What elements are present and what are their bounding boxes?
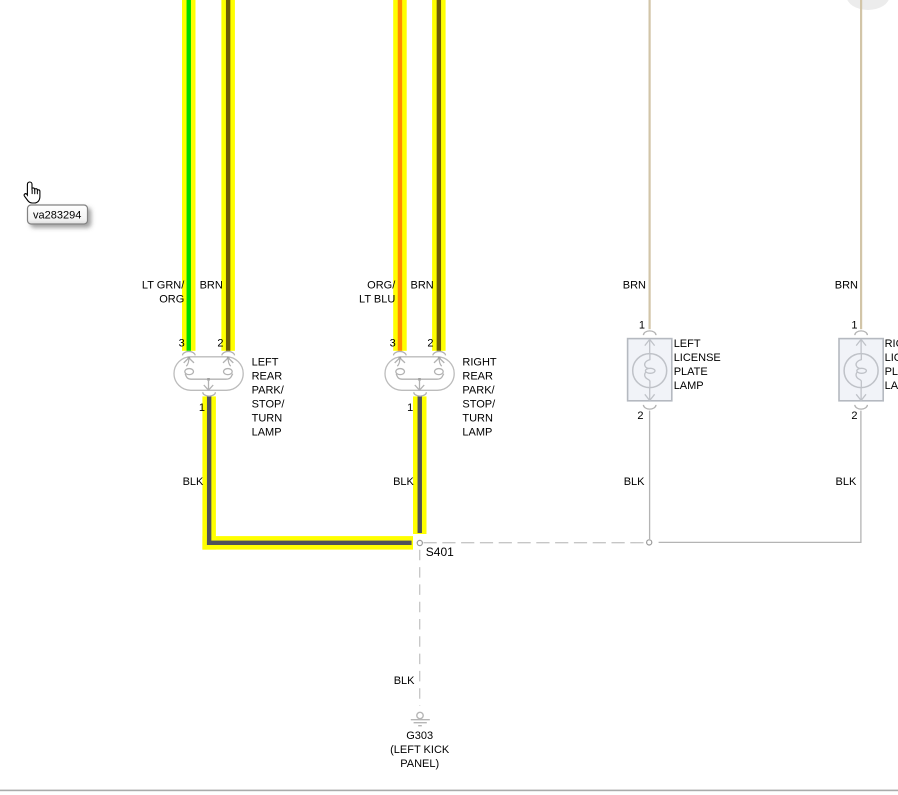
svg-text:LEFT: LEFT bbox=[674, 338, 701, 350]
wire BRN (left rear lamp) highlight bbox=[221, 0, 235, 351]
svg-text:S401: S401 bbox=[426, 545, 454, 559]
svg-text:STOP/: STOP/ bbox=[252, 398, 286, 410]
label LT GRN/ORG wire color bbox=[142, 279, 185, 305]
svg-text:2: 2 bbox=[637, 410, 643, 422]
label LEFT REAR PARK/STOP/TURN LAMP bbox=[252, 356, 286, 438]
pin 2 arrow bbox=[223, 358, 233, 363]
wire BRN (right rear lamp) core bbox=[437, 0, 441, 351]
filament left bbox=[397, 358, 400, 366]
pin 2 lead and arrow bbox=[645, 388, 655, 401]
svg-text:LICENSE: LICENSE bbox=[674, 352, 721, 364]
svg-text:2: 2 bbox=[217, 337, 223, 349]
svg-text:PARK/: PARK/ bbox=[462, 384, 495, 396]
stadium body bbox=[174, 357, 243, 391]
wire BRN thin (left license lamp) bbox=[649, 0, 651, 329]
svg-text:STOP/: STOP/ bbox=[462, 398, 496, 410]
label G303 (LEFT KICK PANEL) bbox=[390, 730, 450, 770]
bulb circle bbox=[633, 354, 667, 388]
inner bottom path bbox=[396, 374, 444, 380]
svg-text:3: 3 bbox=[390, 337, 396, 349]
svg-text:LT GRN/: LT GRN/ bbox=[142, 279, 185, 291]
svg-text:BLK: BLK bbox=[624, 476, 645, 488]
wire BLK (right rear lamp) highlight bbox=[413, 396, 427, 534]
pin 1 arrow and lead bbox=[856, 339, 866, 353]
pin 2 dot bbox=[227, 357, 230, 360]
tooltip va283294 bbox=[28, 205, 88, 224]
label LEFT LICENSE PLATE LAMP bbox=[674, 338, 721, 392]
svg-text:BRN: BRN bbox=[835, 279, 858, 291]
pin 3 arrow bbox=[395, 358, 405, 363]
filament bbox=[856, 354, 861, 369]
svg-text:ORG/: ORG/ bbox=[367, 279, 396, 291]
wire BLK (left rear lamp) core L-shape bbox=[207, 396, 211, 545]
pin 2 terminal arc bbox=[855, 405, 868, 409]
common dot bbox=[418, 378, 421, 381]
pin 1 lead and arrow bbox=[415, 380, 424, 390]
label RIGHT REAR PARK/STOP/TURN LAMP bbox=[462, 356, 497, 438]
pin 1 terminal arc bbox=[643, 331, 656, 335]
wire LT GRN/ORG core bbox=[187, 0, 191, 351]
bulb circle bbox=[844, 354, 878, 388]
pin 1 lead and arrow bbox=[204, 380, 213, 390]
svg-text:BRN: BRN bbox=[411, 279, 434, 291]
ground G303 symbol bbox=[411, 712, 430, 725]
svg-text:TURN: TURN bbox=[252, 412, 283, 424]
svg-text:BLK: BLK bbox=[183, 476, 204, 488]
svg-text:2: 2 bbox=[427, 337, 433, 349]
svg-text:TURN: TURN bbox=[462, 412, 493, 424]
svg-text:va283294: va283294 bbox=[33, 209, 81, 221]
pin 3 dot bbox=[399, 357, 402, 360]
svg-text:1: 1 bbox=[851, 319, 857, 331]
filament right bbox=[439, 358, 442, 366]
lamp U1 LEFT REAR PARK/STOP/TURN LAMP bbox=[174, 352, 243, 397]
svg-text:1: 1 bbox=[199, 402, 205, 414]
svg-text:LAMP: LAMP bbox=[252, 426, 282, 438]
pin 2 dot bbox=[438, 357, 441, 360]
svg-text:LT BLU: LT BLU bbox=[359, 293, 395, 305]
svg-text:LAMP: LAMP bbox=[674, 380, 704, 392]
svg-text:3: 3 bbox=[179, 337, 185, 349]
pin 3 dot bbox=[188, 357, 191, 360]
svg-text:(LEFT KICK: (LEFT KICK bbox=[390, 744, 450, 756]
pin 2 arrow bbox=[434, 358, 444, 363]
svg-text:LAMP: LAMP bbox=[462, 426, 492, 438]
svg-text:2: 2 bbox=[851, 410, 857, 422]
wire ORG/LT BLU highlight bbox=[393, 0, 407, 351]
pin 2 terminal arc bbox=[643, 405, 656, 409]
svg-text:PLATE: PLATE bbox=[885, 366, 898, 378]
label RIGHT LICENSE PLATE LAMP (clipped) bbox=[885, 338, 898, 392]
splice S401 bbox=[417, 540, 422, 545]
svg-text:LAMP: LAMP bbox=[885, 380, 898, 392]
wire BLK thin (left license lamp) bbox=[649, 411, 651, 539]
svg-text:1: 1 bbox=[639, 319, 645, 331]
svg-text:PLATE: PLATE bbox=[674, 366, 708, 378]
pin 1 terminal arc bbox=[414, 392, 427, 396]
bottom border line bbox=[0, 790, 898, 792]
lamp U3 LEFT LICENSE PLATE LAMP bbox=[628, 331, 672, 409]
pin 2 terminal arc bbox=[222, 352, 235, 356]
svg-text:BLK: BLK bbox=[393, 476, 414, 488]
svg-text:ORG: ORG bbox=[159, 293, 184, 305]
svg-text:BRN: BRN bbox=[623, 279, 646, 291]
svg-text:BRN: BRN bbox=[200, 279, 223, 291]
svg-text:BLK: BLK bbox=[394, 675, 415, 687]
wire BLK (left rear lamp) highlight L-shape bbox=[202, 396, 216, 549]
lamp U2 RIGHT REAR PARK/STOP/TURN LAMP bbox=[385, 352, 454, 397]
wire LT GRN/ORG highlight bbox=[182, 0, 196, 351]
svg-text:G303: G303 bbox=[406, 730, 433, 742]
pin 2 terminal arc bbox=[433, 352, 446, 356]
svg-text:RIGHT: RIGHT bbox=[462, 356, 497, 368]
faint blob top-right bbox=[847, 0, 890, 10]
wire BLK (right rear lamp) core bbox=[418, 396, 422, 533]
svg-text:PANEL): PANEL) bbox=[400, 758, 439, 770]
wire BRN (right rear lamp) highlight bbox=[432, 0, 446, 351]
common dot bbox=[207, 378, 210, 381]
dashed wire S401 down to ground bbox=[419, 550, 421, 706]
dashed wire S401 to junction bbox=[424, 542, 646, 544]
svg-text:1: 1 bbox=[407, 402, 413, 414]
mouse cursor (hand pointer) bbox=[24, 182, 40, 203]
inner bottom path bbox=[185, 374, 233, 380]
svg-text:REAR: REAR bbox=[252, 370, 283, 382]
svg-text:LEFT: LEFT bbox=[252, 356, 279, 368]
svg-text:RIGHT: RIGHT bbox=[885, 338, 898, 350]
svg-text:LICENSE: LICENSE bbox=[885, 352, 898, 364]
svg-text:BLK: BLK bbox=[836, 476, 857, 488]
pin 3 terminal arc bbox=[183, 352, 196, 356]
junction license lamps bbox=[647, 540, 652, 545]
filament bbox=[645, 354, 650, 369]
filament left bbox=[186, 358, 189, 366]
body bbox=[628, 339, 672, 401]
stadium body bbox=[385, 357, 454, 391]
filament right bbox=[228, 358, 231, 366]
pin 1 terminal arc bbox=[855, 331, 868, 335]
wire BLK thin (right license lamp) with corner bbox=[659, 411, 861, 543]
lamp U4 RIGHT LICENSE PLATE LAMP bbox=[839, 331, 883, 409]
svg-text:REAR: REAR bbox=[462, 370, 493, 382]
wire BRN (left rear lamp) core bbox=[226, 0, 230, 351]
pin 1 arrow and lead bbox=[645, 339, 655, 353]
wire BRN thin (right license lamp) bbox=[860, 0, 862, 329]
wire ORG/LT BLU core bbox=[398, 0, 402, 351]
svg-text:PARK/: PARK/ bbox=[252, 384, 285, 396]
pin 1 terminal arc bbox=[203, 392, 216, 396]
pin 2 lead and arrow bbox=[856, 388, 866, 401]
pin 3 arrow bbox=[184, 358, 194, 363]
pin 3 terminal arc bbox=[394, 352, 407, 356]
label ORG/LT BLU wire color bbox=[359, 279, 396, 305]
body bbox=[839, 339, 883, 401]
